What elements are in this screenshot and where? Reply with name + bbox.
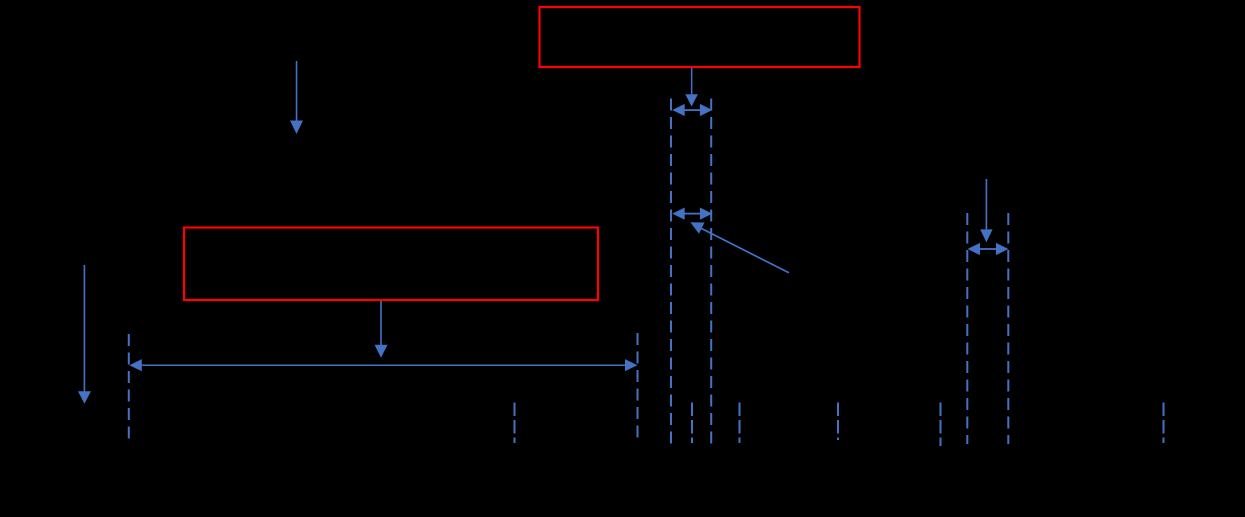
short dashed tick at x=514	[514, 403, 516, 444]
arrow A: down arrow upper-left area	[290, 61, 303, 134]
dashed line: left of center pair	[670, 99, 672, 445]
short dashed tick at x=940	[940, 403, 942, 447]
arrow B: long down arrow far left	[78, 265, 91, 404]
short dashed tick at x=838	[837, 403, 839, 441]
arrow F: down arrow below red box 2	[375, 301, 388, 358]
diagonal pointer line with head near center pair	[0, 0, 1, 1]
red box 1 (top)	[540, 7, 860, 67]
red box 2 (middle-left)	[184, 228, 598, 301]
right pair dashed line left	[966, 213, 968, 444]
short dashed tick at x=739	[739, 403, 741, 444]
dashed line: bottom-left boundary	[128, 334, 130, 444]
double arrow 3 (between right pair)	[968, 243, 1009, 255]
short dashed tick at x=1163	[1163, 403, 1165, 444]
arrow C: pointer from red box 1 down to dashed pair	[685, 68, 698, 107]
double arrow 1 (between center pair, top)	[672, 104, 712, 116]
short dashed tick at x=692	[691, 403, 693, 444]
dashed line: right of center pair	[710, 99, 712, 445]
long double arrow (bottom)	[129, 359, 637, 371]
arrow E: down arrow at right pair	[980, 179, 992, 242]
right pair dashed line right	[1007, 213, 1009, 444]
dashed line: bottom-right boundary of long arrow	[637, 333, 639, 444]
double arrow 2 (between center pair, middle)	[672, 208, 712, 220]
